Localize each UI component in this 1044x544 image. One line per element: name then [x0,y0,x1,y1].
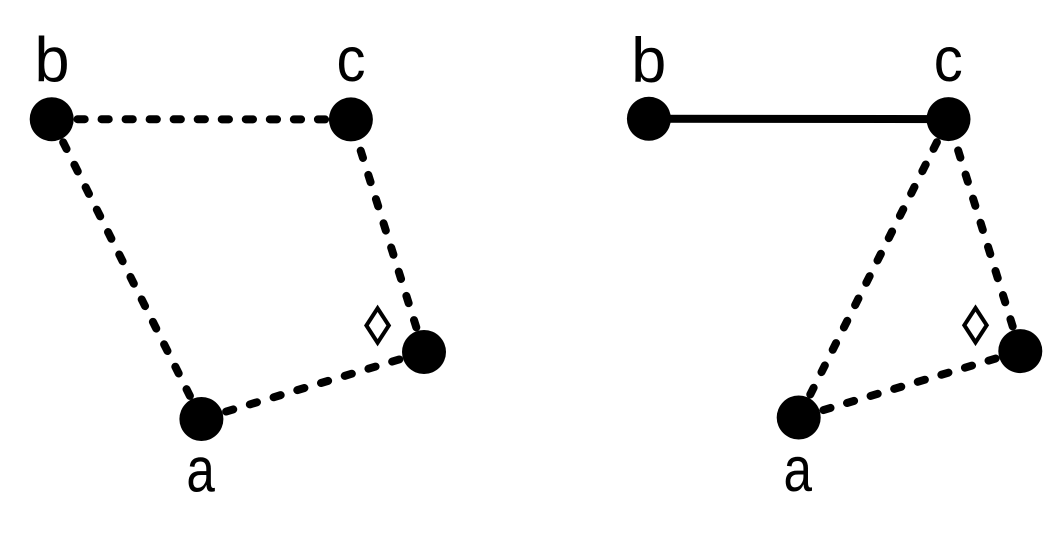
svg-text:b: b [34,26,69,96]
svg-text:c: c [337,25,366,95]
svg-text:b: b [631,26,666,96]
svg-text:a: a [186,436,215,506]
svg-text:a: a [783,435,812,505]
svg-text:c: c [934,25,963,95]
